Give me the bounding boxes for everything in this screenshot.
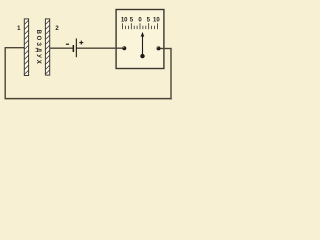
battery negative plate (short bar) [73,45,75,52]
wire from plate 1 to left rail [5,47,24,49]
svg-text:10: 10 [121,17,128,23]
wire left rail down [4,47,6,99]
needle (pointer at zero) [141,32,145,56]
svg-text:1: 1 [17,26,21,32]
svg-text:2: 2 [55,26,59,32]
wire into galvanometer right terminal [159,48,172,50]
wire bottom rail [5,98,172,100]
scale tick marks [123,23,158,29]
battery positive plate (long bar) [76,38,77,57]
galvanometer box G [116,10,164,69]
wire plate 2 to battery [50,47,73,49]
wire right rail up [170,49,172,100]
battery plus sign [79,41,83,45]
left terminal [122,46,126,50]
battery minus sign [66,43,69,45]
svg-text:10: 10 [153,17,160,23]
needle pivot dot [140,54,144,58]
wire battery to galvanometer left terminal [76,47,124,49]
svg-text:ВОЗДУХ: ВОЗДУХ [35,30,41,66]
plate 2 (hatched electrode) [45,19,49,75]
plate 1 (hatched electrode) [24,19,28,76]
right terminal [157,46,161,50]
